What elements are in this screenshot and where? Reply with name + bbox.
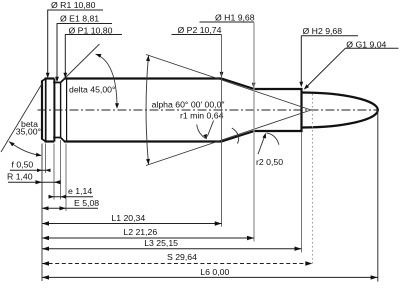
alpha cone lower construction line xyxy=(146,110,311,166)
dimension e arrowheads xyxy=(49,195,67,199)
label G1 arrowhead xyxy=(304,84,309,89)
alpha cone upper construction line xyxy=(146,55,311,111)
extractor groove bottom xyxy=(53,137,61,139)
label G1 leader diagonal xyxy=(305,48,345,88)
neck bottom edge xyxy=(254,130,302,132)
label G1 underline xyxy=(345,47,399,49)
case head bevel bottom xyxy=(42,139,46,142)
dimension L6 line xyxy=(42,276,378,278)
r2 leader line xyxy=(258,136,265,154)
alpha angle arc xyxy=(146,56,148,165)
extension line case mouth xyxy=(301,132,303,253)
body junction edge xyxy=(66,79,68,142)
rim bevel junction line xyxy=(45,79,47,142)
svg-text:L6 0,00: L6 0,00 xyxy=(200,267,229,277)
delta angle arc xyxy=(96,54,118,108)
label E1 leader xyxy=(56,24,58,81)
label H2 leader xyxy=(300,36,302,85)
label R1 underline xyxy=(47,9,103,11)
svg-text:Ø H2 9,68: Ø H2 9,68 xyxy=(303,26,343,36)
svg-text:35,00°: 35,00° xyxy=(16,127,41,137)
extension line base face xyxy=(41,144,43,282)
dimension L2 arrowheads xyxy=(42,236,254,240)
label R1 arrowhead xyxy=(46,73,50,79)
extractor groove top xyxy=(53,82,61,84)
svg-text:S 29,64: S 29,64 xyxy=(167,252,197,262)
bullet outline xyxy=(302,93,378,128)
svg-text:r1 min 0,64: r1 min 0,64 xyxy=(180,111,224,121)
dimension E arrowheads xyxy=(42,206,66,210)
delta arc arrowhead upper xyxy=(96,54,102,58)
label H2 arrowhead xyxy=(299,82,303,88)
rim top edge xyxy=(45,77,55,79)
dimension f arrowheads xyxy=(37,169,51,173)
r1 radius arc on shoulder xyxy=(232,128,239,144)
extension line head end xyxy=(65,144,67,212)
alpha arc arrowhead top xyxy=(146,56,150,62)
dimension L3 arrowheads xyxy=(42,247,302,251)
r1 leader arrowhead xyxy=(203,134,207,140)
svg-text:Ø R1 10,80: Ø R1 10,80 xyxy=(51,0,96,10)
shoulder top edge xyxy=(222,79,255,90)
svg-text:L2 21,26: L2 21,26 xyxy=(123,227,157,237)
alpha arc arrowhead bottom xyxy=(146,159,150,165)
label E1 underline xyxy=(57,23,112,25)
label H2 underline xyxy=(301,35,358,37)
label P1 arrowhead xyxy=(63,73,67,79)
svg-text:alpha 60° 00′ 00,0″: alpha 60° 00′ 00,0″ xyxy=(152,100,225,110)
label P1 leader xyxy=(64,35,66,77)
beta angle arc xyxy=(9,142,41,156)
beta 35 deg construction line xyxy=(1,83,42,152)
svg-text:delta 45,00°: delta 45,00° xyxy=(69,85,115,95)
r2 radius arc at shoulder-neck junction xyxy=(267,133,280,145)
case body top edge xyxy=(64,77,222,79)
dimension S line xyxy=(42,263,312,265)
r1 leader curve xyxy=(197,125,206,139)
cartridge case head base face xyxy=(41,81,43,140)
extension line shoulder end xyxy=(253,23,255,242)
svg-text:f 0,50: f 0,50 xyxy=(12,159,34,169)
shoulder bottom edge xyxy=(222,131,255,142)
label E1 arrowhead xyxy=(55,77,59,83)
case head bevel top xyxy=(42,79,46,82)
svg-text:L3 25,15: L3 25,15 xyxy=(144,238,178,248)
svg-text:Ø E1 8,81: Ø E1 8,81 xyxy=(60,14,99,24)
svg-text:E 5,08: E 5,08 xyxy=(74,198,99,208)
dimension L2 line xyxy=(42,237,254,239)
label P2 arrowhead xyxy=(220,72,224,78)
svg-text:Ø P2 10,74: Ø P2 10,74 xyxy=(178,25,222,35)
dimension S arrowheads xyxy=(42,261,312,265)
groove end edge xyxy=(60,83,62,138)
dimension E line xyxy=(42,207,98,209)
dimension e line xyxy=(49,196,93,198)
label R1 leader xyxy=(47,10,49,76)
extension line groove end xyxy=(60,140,62,200)
label P2 underline xyxy=(172,34,222,36)
extension line shoulder start xyxy=(221,35,223,227)
svg-text:r2 0,50: r2 0,50 xyxy=(256,157,283,167)
svg-text:e 1,14: e 1,14 xyxy=(68,186,92,196)
svg-text:Ø G1 9,04: Ø G1 9,04 xyxy=(346,39,386,49)
case mouth face xyxy=(300,88,302,132)
beta arc arrowhead lower xyxy=(36,153,42,157)
dimension L6 arrowheads xyxy=(42,275,378,279)
rim bottom edge xyxy=(45,140,55,142)
label P1 underline xyxy=(65,34,122,36)
case body bottom edge xyxy=(64,140,222,142)
delta 45 deg construction line xyxy=(64,44,100,80)
neck top edge xyxy=(254,88,302,90)
dimension R arrowheads xyxy=(36,180,61,184)
groove ramp bottom xyxy=(60,137,64,141)
extension line rim front xyxy=(53,144,55,200)
svg-text:Ø P1 10,80: Ø P1 10,80 xyxy=(69,26,113,36)
r1 leader line straight xyxy=(207,121,213,137)
svg-text:L1 20,34: L1 20,34 xyxy=(111,213,145,223)
svg-text:R 1,40: R 1,40 xyxy=(7,172,33,182)
label H1 underline xyxy=(200,21,254,23)
rim front face edge xyxy=(53,79,55,142)
svg-text:Ø H1 9,68: Ø H1 9,68 xyxy=(215,13,255,23)
r2 leader arrowhead xyxy=(262,133,266,139)
extension line rim bevel xyxy=(45,144,47,174)
centerline axis xyxy=(38,109,380,111)
extension line S datum dotted xyxy=(312,94,314,264)
dimension L1 line xyxy=(42,223,222,225)
delta arc arrowhead lower on centerline xyxy=(115,103,119,109)
dimension L3 line xyxy=(42,248,302,250)
dimension L1 arrowheads xyxy=(42,221,222,225)
beta arc arrowhead upper xyxy=(9,142,15,147)
label H1 arrowhead xyxy=(252,83,256,89)
extension line bullet tip xyxy=(377,111,379,282)
dimension f line xyxy=(10,169,49,171)
groove ramp top xyxy=(60,79,64,83)
dimension R line xyxy=(8,181,58,183)
